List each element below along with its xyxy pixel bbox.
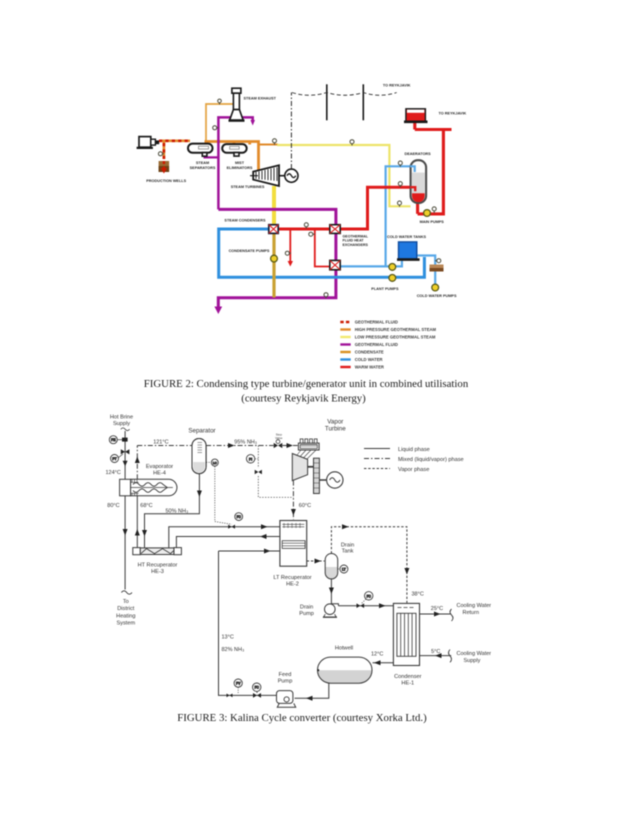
wire: high pressure steam orange to exhaust (206, 104, 234, 142)
generator shaft (319, 479, 326, 481)
wire: purple geothermal fluid from exhaust (218, 117, 252, 209)
svg-text:PRODUCTION WELLS: PRODUCTION WELLS (146, 179, 186, 183)
figure 3 labels (106, 415, 492, 687)
arrow hot brine above evaporator (123, 461, 128, 467)
svg-text:25°C: 25°C (431, 606, 443, 612)
svg-text:Condenser: Condenser (394, 674, 422, 680)
power line to grid (290, 93, 292, 170)
heat exchanger box: steam condenser (269, 225, 278, 234)
svg-text:68°C: 68°C (140, 503, 152, 509)
svg-text:HE-2: HE-2 (286, 581, 299, 587)
arrow vapor right (342, 524, 349, 529)
generator symbol (279, 175, 285, 177)
valve on purple bottom (324, 293, 328, 299)
turbine exhaust line (292, 481, 294, 520)
legend condensate (340, 351, 350, 353)
svg-text:Cooling Water: Cooling Water (457, 603, 492, 609)
wire: red to lower heat exchanger (315, 229, 330, 267)
wire: blue cold water rectangle (219, 229, 425, 277)
valve on well line (158, 152, 164, 156)
svg-text:DEAERATORS: DEAERATORS (404, 152, 431, 156)
wire: orange steam bus above separators (205, 142, 259, 172)
FIGURE 3 DIAGRAM (109, 428, 453, 707)
warm water injection patch (430, 265, 444, 272)
legend high pressure steam (340, 328, 350, 330)
svg-text:System: System (116, 620, 135, 626)
svg-text:Separator: Separator (188, 427, 215, 434)
instrument TCV (365, 592, 373, 600)
svg-text:WARM WATER: WARM WATER (355, 365, 384, 370)
separator liquid line 50% NH3 (145, 474, 200, 548)
svg-text:Supply: Supply (464, 658, 481, 664)
well injection ground patch (159, 161, 170, 172)
valve on yellow near deaerator (398, 201, 402, 207)
steam exhaust stack (229, 88, 245, 120)
wire: red drain stub with arrow (289, 229, 291, 262)
valve on orange exhaust line (218, 99, 222, 104)
pump: cold water pump (432, 284, 439, 291)
feed line into LT recuperator (219, 550, 280, 552)
separator vessel (192, 439, 206, 474)
drain tank to drain pump (330, 579, 332, 609)
svg-text:5°C: 5°C (431, 649, 440, 655)
deaerator vessel (411, 160, 427, 203)
arrow riser up lower (135, 529, 140, 536)
control valve on line (228, 525, 235, 529)
arrow purple bottom left (214, 307, 222, 315)
valve on blue deaerator line (398, 161, 402, 167)
svg-text:124°C: 124°C (106, 470, 121, 476)
cold water tank (399, 242, 417, 259)
instrument FE (109, 436, 117, 444)
svg-text:STEAM TURBINES: STEAM TURBINES (231, 185, 265, 189)
svg-text:STEAM: STEAM (196, 161, 209, 165)
figure 2 labels (146, 84, 466, 298)
hotwell vessel (318, 670, 373, 683)
svg-text:FT: FT (112, 457, 116, 461)
svg-text:To: To (123, 599, 129, 605)
svg-text:MAIN PUMPS: MAIN PUMPS (420, 220, 445, 224)
drain tank vapor dashed loop to condenser (331, 527, 407, 603)
svg-text:COLD WATER PUMPS: COLD WATER PUMPS (417, 294, 457, 298)
turbine inlet manifold (298, 443, 319, 450)
svg-text:TO REYKJAVIK: TO REYKJAVIK (439, 112, 467, 116)
svg-text:GEOTHERMAL FLUID: GEOTHERMAL FLUID (355, 320, 398, 325)
cooling water return line (420, 613, 452, 615)
svg-text:COLD WATER TANKS: COLD WATER TANKS (387, 235, 427, 239)
svg-text:Pump: Pump (299, 611, 314, 617)
svg-text:TO REYKJAVIK: TO REYKJAVIK (383, 84, 411, 88)
instrument FC (235, 513, 243, 521)
svg-text:12°C: 12°C (371, 652, 383, 658)
svg-text:Feed: Feed (279, 672, 292, 678)
pump: condensate pump (271, 255, 278, 262)
wire: red warm water deaerator to tank circuit (415, 122, 452, 214)
vapor line 95% NH3 (206, 445, 298, 447)
wire: red condensate main (278, 187, 411, 229)
stop valve (274, 443, 283, 448)
dashed LT recup to drain tank (307, 560, 325, 562)
mixed phase line to separator (137, 445, 192, 447)
svg-text:Drain: Drain (300, 604, 313, 610)
arrow vapor line (228, 443, 235, 448)
wire: dashed geothermal fluid from wells (159, 140, 190, 143)
svg-text:MIST: MIST (235, 161, 245, 165)
svg-text:HE-3: HE-3 (151, 569, 164, 575)
captions (144, 378, 469, 724)
condensate to hotwell 12C (373, 662, 394, 664)
svg-text:Supply: Supply (113, 421, 130, 427)
instrument FT (111, 455, 119, 463)
svg-text:80°C: 80°C (107, 503, 119, 509)
svg-text:SEPARATORS: SEPARATORS (190, 166, 216, 170)
steam turbine symbol (250, 165, 279, 186)
svg-text:Vapor: Vapor (327, 418, 343, 425)
valve on yellow line (350, 140, 354, 146)
svg-text:EXCHANGERS: EXCHANGERS (343, 243, 369, 247)
valve on purple vertical (213, 126, 219, 130)
svg-text:COLD WATER: COLD WATER (355, 357, 383, 362)
arrow drain down (329, 588, 334, 595)
valve on red lower line (309, 232, 315, 236)
svg-text:Evaporator: Evaporator (146, 464, 173, 470)
wire: purple from separator bottom (205, 155, 219, 157)
arrow into LT recup (261, 524, 268, 529)
valve on red main (304, 223, 308, 229)
bypass valve (255, 470, 262, 474)
svg-text:FIGURE 3: Kalina Cycle conver: FIGURE 3: Kalina Cycle converter (courte… (177, 712, 427, 724)
condenser HE-1 (393, 603, 419, 665)
wire: light blue tank right to cold water pump (417, 256, 435, 285)
line LT recuperator to HE-3 return (176, 537, 281, 548)
production well symbol (137, 137, 160, 148)
pump: plant pump lower (389, 275, 396, 282)
mist eliminator vessel (222, 144, 247, 153)
legend geothermal fluid purple (340, 343, 350, 345)
svg-text:13°C: 13°C (222, 634, 234, 640)
hot water storage tank (406, 109, 426, 122)
svg-text:FC: FC (255, 686, 260, 690)
svg-text:50% NH₃: 50% NH₃ (166, 508, 189, 514)
legend figure 3 (364, 449, 390, 469)
svg-text:HIGH PRESSURE GEOTHERMAL STEAM: HIGH PRESSURE GEOTHERMAL STEAM (355, 327, 437, 332)
svg-text:FC: FC (237, 515, 242, 519)
vapor turbine body (292, 454, 307, 481)
wire: purple main horizontal (218, 209, 336, 308)
svg-text:HE-1: HE-1 (401, 681, 414, 687)
steam separator vessel (188, 144, 213, 153)
valve on hot brine (121, 449, 130, 454)
valve on red near deaerator (398, 182, 402, 188)
hot brine supply line (124, 431, 126, 590)
instrument LC on separator (211, 459, 218, 466)
arrow feed right (264, 549, 271, 554)
svg-text:FC: FC (367, 594, 372, 598)
arrow into HE-3 (142, 530, 147, 537)
svg-text:HT Recuperator: HT Recuperator (138, 562, 178, 568)
svg-text:Heating: Heating (116, 613, 135, 619)
wire: light blue deaerator cold water (340, 166, 411, 266)
arrow return left (260, 534, 267, 539)
svg-text:STEAM EXHAUST: STEAM EXHAUST (244, 97, 277, 101)
feed pump discharge to riser (219, 551, 277, 695)
FIGURE 2 DIAGRAM (137, 84, 452, 314)
wire: yellow turbine exhaust to condenser (272, 186, 276, 225)
svg-text:121°C: 121°C (153, 439, 168, 445)
valve on cold water pump line (435, 259, 441, 263)
catenary wires (292, 93, 397, 96)
instrument PV feed (234, 679, 242, 687)
HT recuperator HE-3 (133, 548, 182, 555)
svg-text:Tank: Tank (342, 548, 354, 554)
svg-text:95% NH₃: 95% NH₃ (234, 440, 257, 446)
drain pump (325, 604, 336, 615)
svg-text:LOW PRESSURE GEOTHERMAL STEAM: LOW PRESSURE GEOTHERMAL STEAM (355, 335, 436, 340)
svg-text:PI: PI (249, 457, 252, 461)
svg-text:38°C: 38°C (412, 591, 424, 597)
svg-text:PLANT PUMPS: PLANT PUMPS (371, 287, 399, 291)
svg-text:60°C: 60°C (299, 503, 311, 509)
feed control valve (253, 693, 261, 698)
legend geothermal fluid dashed (340, 321, 350, 323)
small valve on discharge (227, 694, 233, 698)
svg-text:STEAM CONDENSERS: STEAM CONDENSERS (224, 219, 266, 223)
wire: light blue to tank bottom (386, 260, 402, 267)
cooling water supply line (420, 655, 452, 657)
svg-text:LT: LT (342, 568, 346, 572)
generator circle (327, 472, 343, 488)
orifice plate FE (122, 438, 128, 442)
svg-text:Hotwell: Hotwell (335, 645, 353, 651)
arrow exhaust down (291, 509, 296, 516)
svg-text:CONDENSATE: CONDENSATE (355, 350, 384, 355)
cooling water braces (450, 609, 453, 621)
wire: thin orange to low pressure line (259, 144, 279, 146)
svg-text:Pump: Pump (278, 679, 293, 685)
svg-text:District: District (117, 606, 135, 612)
coupling gear (314, 458, 320, 493)
svg-text:Mixed (liquid/vapor) phase: Mixed (liquid/vapor) phase (398, 457, 464, 463)
svg-text:Return: Return (463, 610, 480, 616)
pump: plant pump upper (389, 264, 396, 271)
svg-text:Valve: Valve (275, 436, 283, 440)
heat exchanger box: geothermal HX lower (330, 260, 340, 269)
svg-text:GEOTHERMAL FLUID: GEOTHERMAL FLUID (355, 342, 398, 347)
svg-text:FIGURE 2: Condensing type tur: FIGURE 2: Condensing type turbine/genera… (144, 378, 469, 390)
turbine shaft (308, 466, 314, 468)
arrow into condenser (379, 603, 386, 608)
arrow vapor down (404, 568, 409, 575)
NH3 mixed phase riser through evaporator (136, 446, 138, 480)
legend low pressure steam (340, 336, 350, 338)
pump: main pump (424, 210, 431, 217)
svg-text:82% NH₃: 82% NH₃ (222, 647, 245, 653)
svg-text:Vapor phase: Vapor phase (398, 467, 429, 473)
valve on red drain stub (285, 251, 291, 255)
wire: orange condensate below condenser (272, 233, 275, 297)
svg-text:Liquid phase: Liquid phase (398, 447, 430, 453)
arrow hot brine down (123, 529, 128, 536)
instrument LT on drain tank (340, 565, 348, 573)
LT recuperator HE-2 (280, 521, 307, 567)
valve near main pumps (432, 207, 436, 213)
evaporator HE-4 (120, 479, 177, 496)
svg-text:LT Recuperator: LT Recuperator (273, 575, 311, 581)
legend warm water (340, 366, 350, 368)
hotwell to feed pump (295, 683, 329, 698)
arrow liquid down (197, 491, 202, 498)
drain pump discharge (338, 605, 393, 607)
svg-text:FE: FE (111, 438, 116, 442)
heat exchanger box: geothermal HX upper (330, 225, 340, 234)
svg-text:CONDENSATE PUMPS: CONDENSATE PUMPS (229, 249, 270, 253)
legend cold water (340, 358, 350, 360)
arrow riser up (135, 457, 140, 464)
feed pump (277, 691, 293, 704)
arrow into manifold (287, 443, 294, 448)
line HE-3 to LT recuperator top (169, 527, 281, 548)
instrument PI (246, 455, 254, 463)
svg-text:Cooling Water: Cooling Water (457, 651, 492, 657)
transmission towers (326, 84, 328, 120)
valve on thin orange line (273, 139, 277, 145)
turbine bypass dotted (258, 446, 293, 498)
figure 2 legend (340, 320, 436, 370)
arrow purple below exhaust (250, 120, 255, 126)
svg-text:HE-4: HE-4 (153, 470, 166, 476)
drain tank (325, 567, 338, 579)
svg-text:(courtesy Reykjavik Energy): (courtesy Reykjavik Energy) (241, 393, 366, 405)
line break squiggle to district heating (121, 591, 132, 594)
drain valve (357, 603, 365, 608)
svg-text:Turbine: Turbine (325, 426, 346, 433)
wire: yellow low pressure steam line (277, 145, 411, 206)
svg-text:Hot Brine: Hot Brine (110, 415, 133, 421)
svg-text:ELIMINATORS: ELIMINATORS (227, 166, 253, 170)
